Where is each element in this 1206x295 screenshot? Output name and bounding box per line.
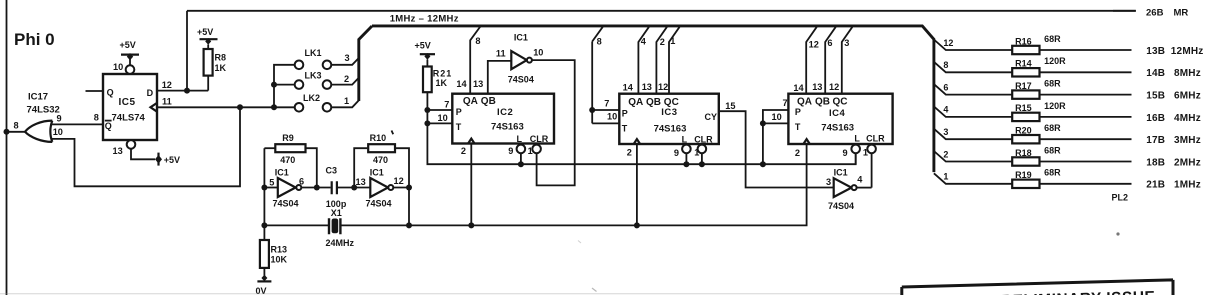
svg-text:15B: 15B: [1146, 91, 1165, 102]
svg-text:T: T: [456, 122, 462, 132]
svg-text:QA: QA: [628, 97, 643, 108]
svg-text:L: L: [682, 135, 688, 145]
svg-text:IC2: IC2: [497, 107, 513, 118]
svg-text:R8: R8: [215, 53, 227, 63]
svg-text:R14: R14: [1015, 59, 1032, 69]
svg-text:+5V: +5V: [197, 27, 213, 37]
svg-text:R17: R17: [1015, 81, 1032, 91]
svg-text:1: 1: [344, 96, 349, 106]
svg-text:1MHz: 1MHz: [1174, 180, 1201, 191]
svg-text:IC4: IC4: [829, 108, 846, 119]
svg-text:6: 6: [943, 82, 948, 92]
svg-text:7: 7: [604, 99, 609, 109]
svg-text:470: 470: [373, 155, 388, 165]
svg-text:QB: QB: [646, 97, 661, 108]
svg-text:1: 1: [863, 148, 868, 158]
svg-text:3MHz: 3MHz: [1174, 135, 1201, 146]
svg-text:CLR: CLR: [530, 134, 549, 144]
svg-text:7: 7: [444, 99, 449, 109]
svg-text:13: 13: [356, 177, 366, 187]
svg-text:4: 4: [857, 175, 863, 185]
svg-text:12: 12: [943, 38, 953, 48]
svg-text:8MHz: 8MHz: [1174, 68, 1201, 79]
svg-text:CLR: CLR: [694, 135, 713, 145]
svg-text:11: 11: [162, 97, 172, 107]
svg-text:2MHz: 2MHz: [1174, 157, 1201, 168]
svg-text:PL2: PL2: [1112, 193, 1129, 203]
svg-text:P: P: [622, 109, 628, 119]
svg-text:68R: 68R: [1044, 79, 1061, 89]
svg-text:QB: QB: [815, 97, 830, 108]
svg-text:8: 8: [94, 113, 99, 123]
svg-text:R19: R19: [1015, 170, 1032, 180]
svg-text:8: 8: [14, 121, 19, 131]
svg-text:12: 12: [658, 82, 668, 92]
svg-text:74S163: 74S163: [491, 122, 524, 133]
svg-text:74S04: 74S04: [366, 199, 392, 209]
svg-text:4MHz: 4MHz: [1174, 113, 1201, 124]
svg-text:10: 10: [772, 112, 782, 122]
svg-text:74S163: 74S163: [821, 123, 854, 134]
svg-text:6: 6: [299, 177, 304, 187]
svg-text:4: 4: [641, 36, 647, 46]
svg-text:QA: QA: [463, 96, 478, 107]
svg-text:LK2: LK2: [303, 93, 320, 103]
svg-text:74S163: 74S163: [654, 124, 687, 135]
svg-text:17B: 17B: [1146, 135, 1165, 146]
svg-text:13: 13: [473, 79, 483, 89]
svg-text:8: 8: [943, 60, 948, 70]
svg-text:IC1: IC1: [514, 32, 528, 42]
svg-text:R16: R16: [1015, 36, 1032, 46]
svg-text:9: 9: [508, 146, 513, 156]
svg-text:Phi 0: Phi 0: [14, 30, 55, 49]
svg-text:R20: R20: [1015, 126, 1032, 136]
svg-text:8: 8: [597, 36, 602, 46]
svg-text:12MHz: 12MHz: [1171, 46, 1204, 57]
svg-text:1: 1: [943, 172, 948, 182]
svg-text:X1: X1: [331, 208, 342, 218]
svg-text:26B: 26B: [1146, 8, 1164, 19]
svg-text:24MHz: 24MHz: [326, 238, 355, 248]
svg-text:CY: CY: [705, 112, 718, 122]
svg-text:R13: R13: [271, 245, 288, 255]
svg-text:68R: 68R: [1044, 145, 1061, 155]
svg-text:12: 12: [394, 176, 404, 186]
svg-text:IC17: IC17: [28, 92, 48, 103]
svg-text:2: 2: [943, 149, 948, 159]
svg-text:R18: R18: [1015, 148, 1032, 158]
svg-text:L: L: [517, 134, 523, 144]
svg-text:120R: 120R: [1044, 56, 1066, 66]
svg-text:1K: 1K: [215, 63, 227, 73]
svg-text:14: 14: [793, 83, 804, 93]
svg-text:74LS74: 74LS74: [112, 113, 146, 124]
svg-text:3: 3: [943, 127, 948, 137]
svg-text:D: D: [147, 88, 154, 98]
svg-text:4: 4: [943, 105, 948, 115]
svg-text:74LS32: 74LS32: [27, 105, 60, 116]
svg-text:1K: 1K: [436, 78, 448, 88]
svg-text:7: 7: [783, 98, 788, 108]
svg-text:IC1: IC1: [275, 167, 289, 177]
svg-text:9: 9: [674, 148, 679, 158]
svg-text:10K: 10K: [271, 255, 288, 265]
svg-text:470: 470: [280, 155, 295, 165]
svg-text:74S04: 74S04: [508, 75, 534, 85]
svg-text:IC1: IC1: [370, 167, 384, 177]
svg-text:MR: MR: [1174, 8, 1189, 19]
svg-text:2: 2: [795, 148, 800, 158]
svg-text:R15: R15: [1015, 103, 1032, 113]
svg-text:21B: 21B: [1146, 180, 1165, 191]
svg-text:R9: R9: [282, 133, 294, 143]
svg-text:74S04: 74S04: [828, 201, 854, 211]
svg-text:P: P: [456, 107, 462, 117]
svg-text:+5V: +5V: [415, 41, 431, 51]
svg-text:10: 10: [607, 112, 617, 122]
svg-text:1: 1: [694, 148, 699, 158]
svg-text:18B: 18B: [1146, 157, 1165, 168]
svg-text:P: P: [795, 107, 801, 117]
svg-text:12: 12: [809, 40, 819, 50]
svg-text:13B: 13B: [1146, 46, 1165, 57]
svg-text:74S04: 74S04: [273, 199, 299, 209]
svg-text:+5V: +5V: [120, 40, 136, 50]
svg-text:120R: 120R: [1044, 101, 1066, 111]
svg-text:68R: 68R: [1044, 34, 1061, 44]
svg-text:15: 15: [725, 101, 735, 111]
svg-text:10: 10: [533, 48, 543, 58]
svg-text:13: 13: [812, 82, 822, 92]
svg-text:11: 11: [496, 49, 506, 59]
svg-text:5: 5: [269, 178, 274, 188]
svg-text:IC1: IC1: [834, 167, 848, 177]
svg-text:1: 1: [670, 36, 675, 46]
svg-text:T: T: [795, 122, 801, 132]
svg-text:QC: QC: [833, 97, 848, 108]
svg-text:IC3: IC3: [661, 107, 677, 118]
svg-text:QB: QB: [481, 96, 496, 107]
svg-text:13: 13: [642, 82, 652, 92]
svg-text:3: 3: [826, 177, 831, 187]
svg-text:10: 10: [53, 127, 63, 137]
svg-text:8: 8: [475, 36, 480, 46]
svg-text:1: 1: [528, 146, 533, 156]
svg-text:14: 14: [623, 83, 634, 93]
svg-text:2: 2: [461, 146, 466, 156]
svg-text:10: 10: [438, 113, 448, 123]
svg-text:Q: Q: [107, 88, 114, 98]
svg-text:6MHz: 6MHz: [1174, 91, 1201, 102]
svg-text:IC5: IC5: [119, 97, 136, 108]
svg-text:R10: R10: [370, 133, 387, 143]
svg-text:14: 14: [456, 79, 467, 89]
svg-text:2: 2: [344, 74, 349, 84]
svg-text:L: L: [854, 134, 860, 144]
svg-text:Q: Q: [105, 121, 112, 131]
svg-text:2: 2: [660, 37, 665, 47]
svg-text:2: 2: [627, 148, 632, 158]
svg-text:+5V: +5V: [164, 155, 180, 165]
svg-text:6: 6: [827, 38, 832, 48]
svg-text:LK1: LK1: [305, 48, 322, 58]
svg-text:12: 12: [829, 82, 839, 92]
svg-text:C3: C3: [326, 165, 338, 175]
svg-text:LK3: LK3: [305, 71, 322, 81]
svg-text:13: 13: [113, 146, 123, 156]
svg-text:10: 10: [113, 62, 123, 72]
svg-text:14B: 14B: [1146, 68, 1165, 79]
svg-text:3: 3: [345, 53, 350, 63]
svg-text:68R: 68R: [1044, 168, 1061, 178]
svg-text:1MHz – 12MHz: 1MHz – 12MHz: [390, 14, 459, 25]
svg-text:QA: QA: [797, 97, 812, 108]
svg-text:12: 12: [162, 80, 172, 90]
svg-text:3: 3: [844, 38, 849, 48]
svg-text:68R: 68R: [1044, 123, 1061, 133]
svg-text:9: 9: [843, 148, 848, 158]
svg-text:T: T: [622, 124, 628, 134]
svg-text:CLR: CLR: [866, 134, 885, 144]
svg-text:16B: 16B: [1146, 113, 1165, 124]
